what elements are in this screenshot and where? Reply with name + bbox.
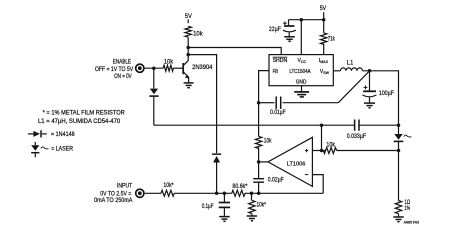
svg-text:IMAX: IMAX bbox=[319, 58, 329, 64]
svg-text:1%: 1% bbox=[405, 206, 411, 212]
svg-text:* = 1% METAL FILM RESISTOR: * = 1% METAL FILM RESISTOR bbox=[43, 111, 126, 117]
svg-text:10k*: 10k* bbox=[163, 183, 174, 189]
svg-text:LT1006: LT1006 bbox=[287, 161, 306, 167]
svg-text:AN95 F03: AN95 F03 bbox=[404, 220, 419, 224]
svg-text:10k: 10k bbox=[326, 143, 335, 149]
svg-text:VSW: VSW bbox=[320, 69, 330, 75]
svg-text:SHDN: SHDN bbox=[273, 58, 288, 64]
svg-text:100µF: 100µF bbox=[379, 91, 394, 97]
svg-text:INPUT: INPUT bbox=[117, 184, 133, 190]
svg-text:GND: GND bbox=[296, 79, 307, 85]
svg-text:2N3904: 2N3904 bbox=[192, 65, 213, 71]
svg-text:0mA TO 250mA: 0mA TO 250mA bbox=[94, 198, 132, 204]
svg-text:ENABLE: ENABLE bbox=[113, 59, 131, 65]
svg-text:0.033µF: 0.033µF bbox=[347, 134, 366, 140]
svg-text:71k: 71k bbox=[328, 37, 336, 43]
svg-text:0.02µF: 0.02µF bbox=[268, 177, 284, 183]
svg-text:0.1µF: 0.1µF bbox=[202, 204, 214, 210]
svg-text:0V TO 2.5V =: 0V TO 2.5V = bbox=[100, 192, 131, 198]
svg-text:L1 = 47µH, SUMIDA CD54-470: L1 = 47µH, SUMIDA CD54-470 bbox=[38, 119, 121, 125]
svg-text:10k: 10k bbox=[164, 59, 174, 65]
svg-text:FB: FB bbox=[273, 69, 279, 75]
svg-text:LTC1504A: LTC1504A bbox=[289, 69, 311, 75]
svg-text:L1: L1 bbox=[347, 60, 354, 66]
svg-text:22µF: 22µF bbox=[269, 27, 281, 33]
svg-text:5V: 5V bbox=[185, 14, 192, 20]
svg-text:80.6k*: 80.6k* bbox=[232, 184, 248, 190]
svg-text:= LASER: = LASER bbox=[51, 147, 73, 153]
svg-text:VCC: VCC bbox=[298, 58, 307, 64]
svg-text:ON = 0V: ON = 0V bbox=[114, 74, 132, 80]
svg-text:OFF = 1V TO 5V: OFF = 1V TO 5V bbox=[95, 67, 133, 73]
svg-text:0.01µF: 0.01µF bbox=[270, 110, 286, 116]
svg-text:10k: 10k bbox=[264, 139, 272, 145]
svg-text:10k: 10k bbox=[193, 31, 204, 37]
svg-text:10k*: 10k* bbox=[257, 202, 267, 208]
svg-text:5V: 5V bbox=[320, 6, 326, 12]
svg-text:= 1N4148: = 1N4148 bbox=[51, 132, 75, 138]
